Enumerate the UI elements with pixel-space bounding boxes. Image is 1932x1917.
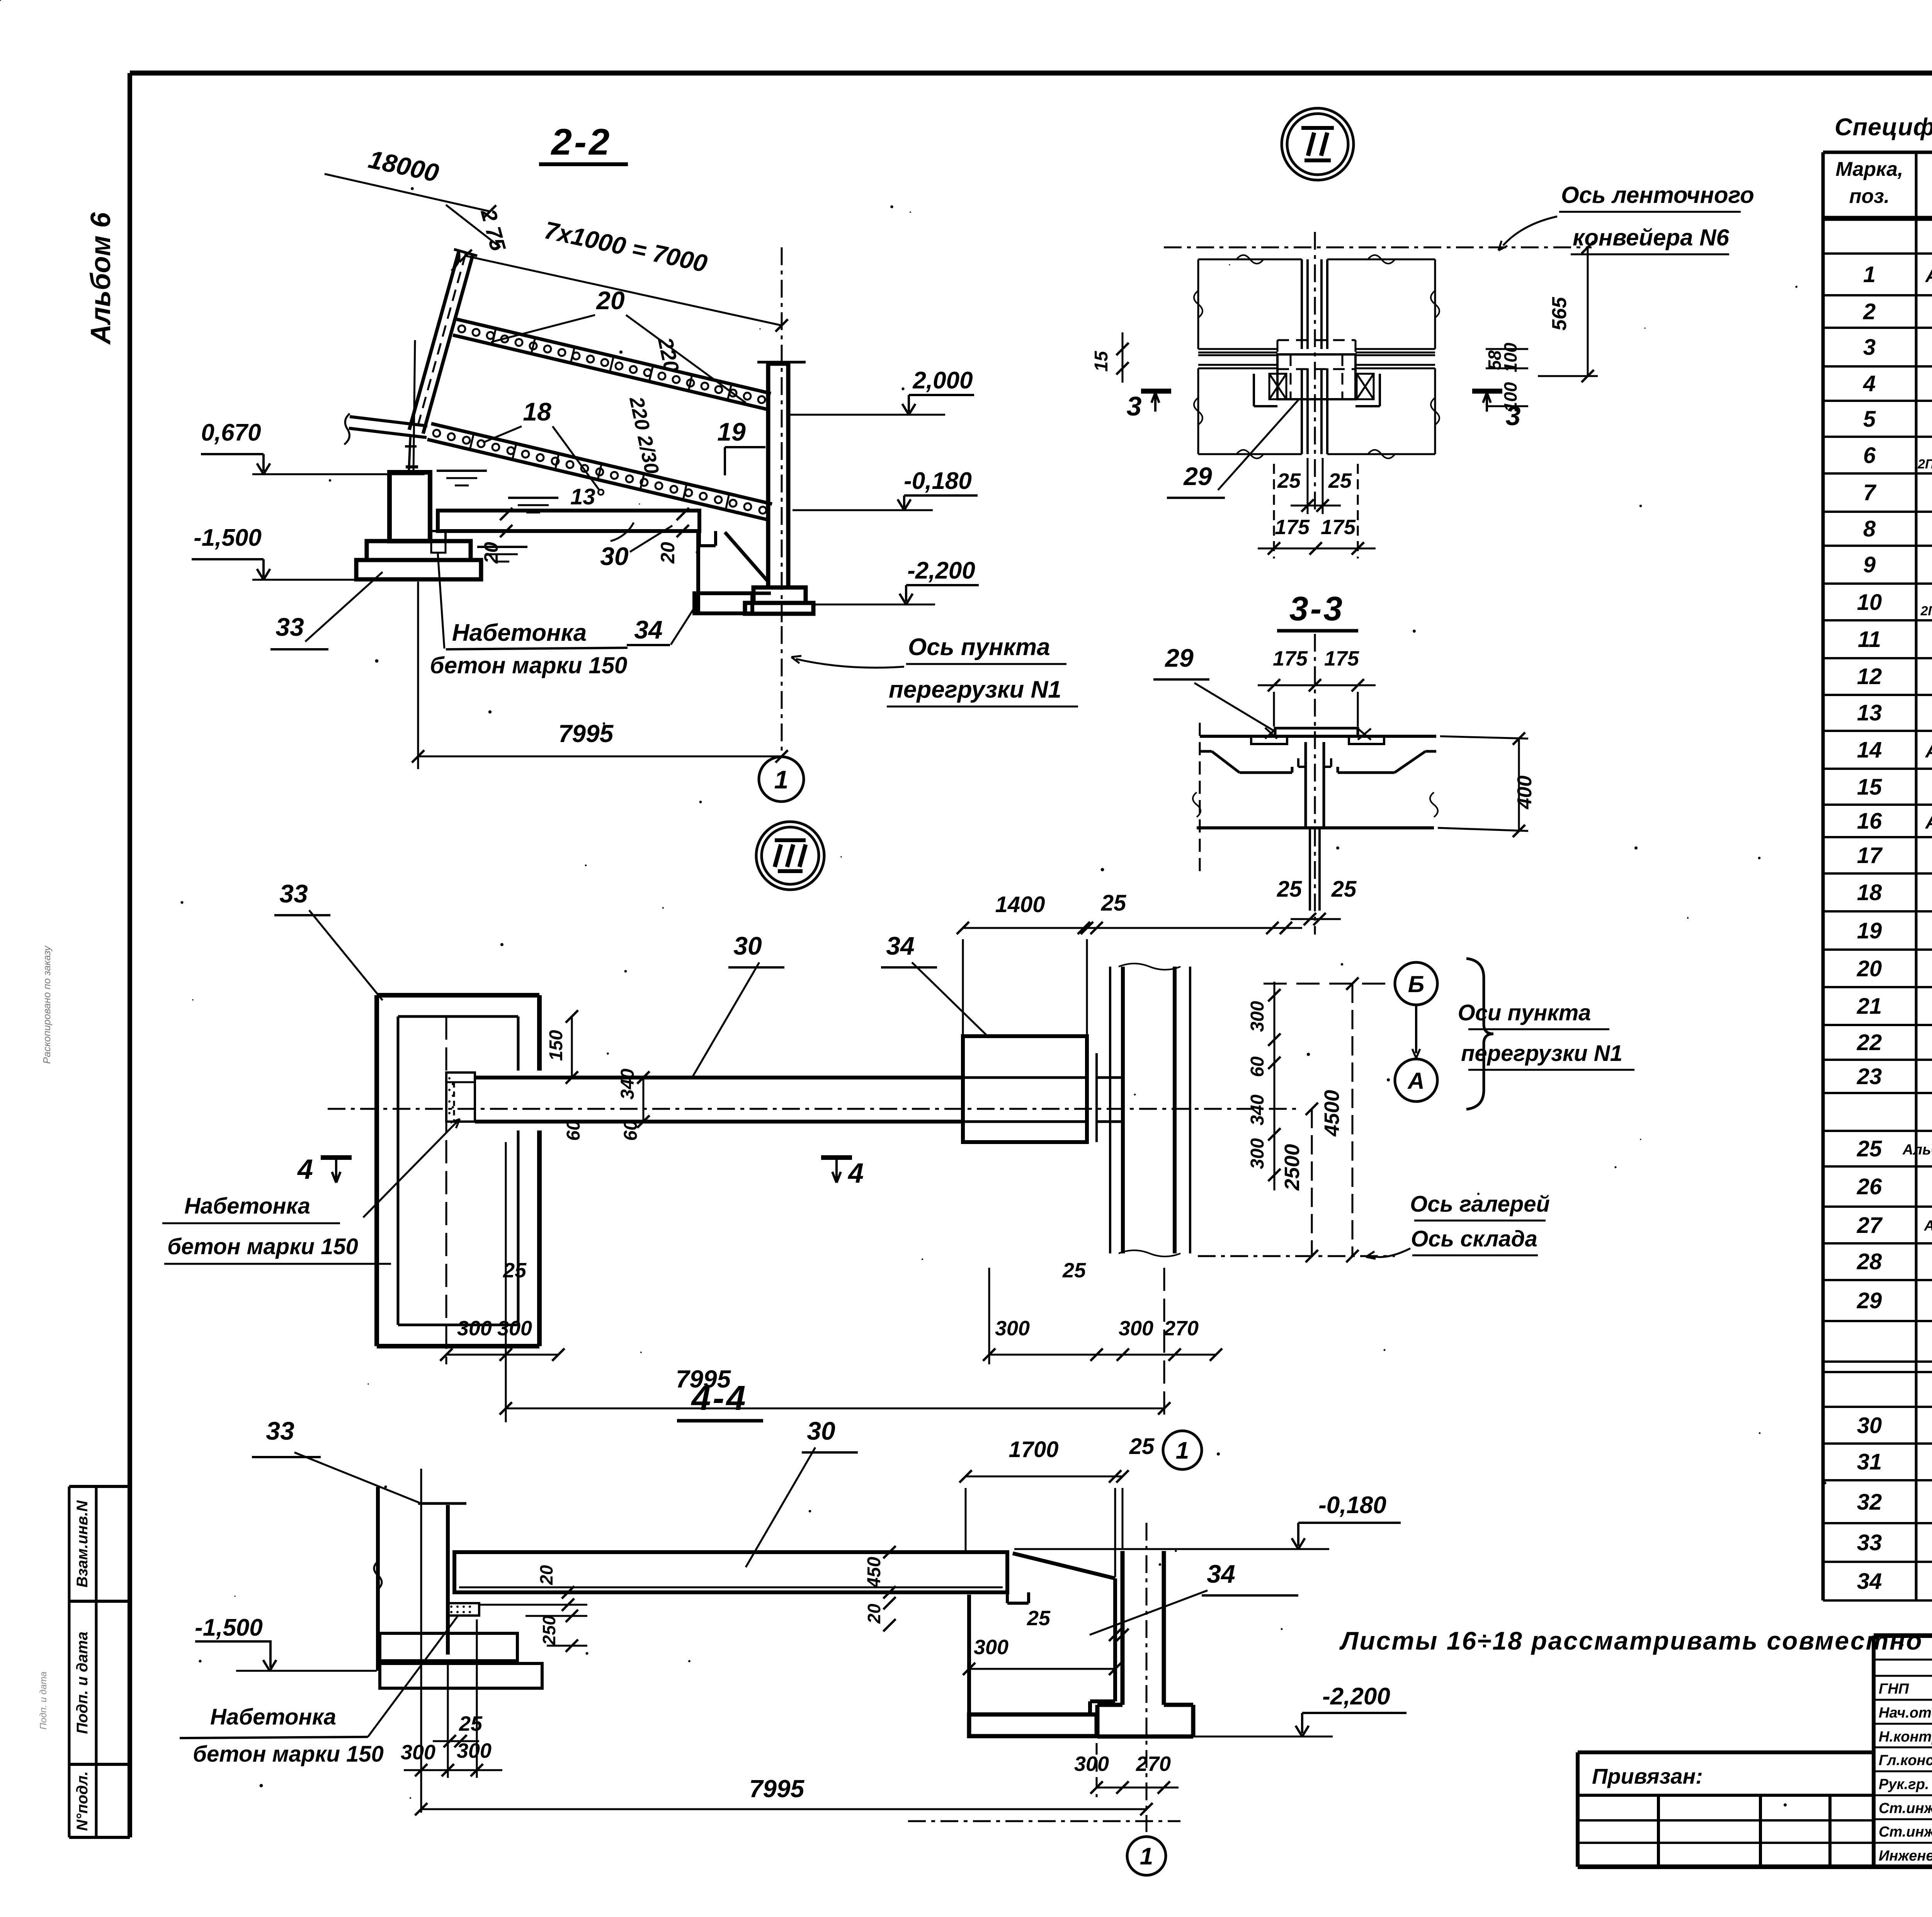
- nabetonka note (4-4): [180, 1615, 459, 1767]
- svg-text:Альбом 8, КЖИ-: Альбом 8, КЖИ-: [1925, 811, 1932, 833]
- svg-text:22: 22: [1857, 1030, 1882, 1055]
- svg-text:ГНП: ГНП: [1879, 1681, 1909, 1697]
- plate band 20 (upper): [453, 319, 771, 409]
- spec row 23: [1857, 1064, 1932, 1089]
- svg-text:300: 300: [401, 1741, 435, 1764]
- svg-text:Набетонка: Набетонка: [452, 620, 587, 646]
- svg-text:21: 21: [1857, 994, 1882, 1019]
- svg-text:300: 300: [1119, 1317, 1153, 1340]
- svg-text:60: 60: [1247, 1056, 1268, 1077]
- slab 30 (2-2): [430, 511, 716, 546]
- svg-text:Ось склада: Ось склада: [1411, 1226, 1537, 1251]
- elevation -0,180 (4-4): [1292, 1492, 1401, 1549]
- svg-text:16: 16: [1857, 809, 1882, 834]
- svg-text:20: 20: [595, 286, 625, 315]
- svg-text:33: 33: [266, 1416, 294, 1445]
- detail II geometry: [1164, 232, 1592, 514]
- svg-text:175: 175: [1324, 647, 1359, 670]
- grid circle 1 (III): [1163, 1431, 1202, 1469]
- section 2-2 title: [539, 121, 628, 164]
- staff signature table: [1874, 1636, 1932, 1867]
- elevation -1,500 (4-4): [195, 1614, 377, 1671]
- spec row 26: [1857, 1174, 1932, 1199]
- bottom dims left (III): [440, 1016, 565, 1422]
- svg-text:7х1000 = 7000: 7х1000 = 7000: [542, 216, 709, 278]
- 3-3 dims: [1153, 644, 1536, 925]
- label 30 (2-2): [600, 526, 672, 570]
- svg-text:270: 270: [1163, 1317, 1199, 1340]
- svg-text:4500: 4500: [1320, 1090, 1344, 1137]
- svg-text:-2,200: -2,200: [907, 557, 975, 584]
- spec row 25: [1857, 1136, 1932, 1161]
- svg-text:Взам.инв.N: Взам.инв.N: [74, 1500, 91, 1587]
- elevation 0,670: [201, 419, 425, 474]
- svg-text:бетон марки 150: бетон марки 150: [193, 1742, 384, 1767]
- svg-text:Подп. и дата: Подп. и дата: [74, 1632, 91, 1734]
- spec row 17: [1857, 843, 1932, 868]
- svg-text:-0,180: -0,180: [1318, 1492, 1386, 1519]
- svg-text:300: 300: [1247, 1138, 1268, 1169]
- spec row 7: [1863, 480, 1932, 505]
- left archive stamp boxes: [69, 1486, 130, 1837]
- svg-text:1: 1: [774, 765, 789, 794]
- spec row 9: [1863, 552, 1932, 577]
- elevation 2,000: [790, 367, 974, 415]
- spec row 16: [1857, 805, 1932, 835]
- label 19: [717, 417, 765, 475]
- grid bubbles Б А (III): [1264, 958, 1493, 1109]
- angle 13deg: [570, 484, 634, 541]
- svg-text:10: 10: [1857, 590, 1882, 615]
- wall lines (III): [1110, 964, 1190, 1256]
- dims 300 270 (4-4): [1074, 1743, 1179, 1797]
- svg-text:300: 300: [457, 1317, 492, 1340]
- svg-text:Марка,: Марка,: [1836, 158, 1903, 180]
- nabetonka note (III): [162, 1119, 460, 1264]
- svg-text:300: 300: [995, 1317, 1030, 1340]
- svg-text:Ст.инж.: Ст.инж.: [1879, 1800, 1932, 1817]
- svg-text:20: 20: [657, 542, 679, 564]
- svg-text:100: 100: [1500, 382, 1520, 412]
- svg-text:300: 300: [457, 1739, 492, 1762]
- svg-text:300: 300: [497, 1317, 532, 1340]
- svg-text:30: 30: [807, 1416, 835, 1445]
- svg-text:33: 33: [1857, 1530, 1882, 1555]
- svg-text:20: 20: [480, 542, 502, 564]
- svg-text:Привязан:: Привязан:: [1592, 1764, 1703, 1788]
- detail II bubble: [1282, 108, 1354, 180]
- spec row 20: [1857, 956, 1932, 981]
- svg-text:2П1-2АIVт-ф, 2П1-2АIVт-ц, 2П1-: 2П1-2АIVт-ф, 2П1-2АIVт-ц, 2П1-2АIVт-щ: [1917, 457, 1932, 472]
- svg-text:бетон марки 150: бетон марки 150: [430, 652, 628, 678]
- svg-text:29: 29: [1183, 462, 1212, 490]
- svg-text:19: 19: [717, 417, 746, 446]
- spec row 22: [1857, 1030, 1932, 1055]
- svg-text:175: 175: [1321, 516, 1356, 539]
- svg-text:Нач.отд.: Нач.отд.: [1879, 1705, 1932, 1721]
- dim 1700 25 (4-4): [959, 1434, 1155, 1577]
- spec row 2: [1863, 299, 1932, 324]
- note: sheets 16-18 jointly: [1339, 1626, 1923, 1655]
- dims 1400 / 25 (III): [957, 890, 1302, 1053]
- svg-text:Инженер: Инженер: [1879, 1848, 1932, 1864]
- svg-text:Набетонка: Набетонка: [184, 1193, 310, 1219]
- svg-text:7995: 7995: [558, 720, 614, 747]
- svg-text:60: 60: [563, 1120, 584, 1141]
- svg-text:4: 4: [297, 1154, 313, 1185]
- svg-text:1400: 1400: [995, 892, 1045, 917]
- svg-text:поз.: поз.: [1849, 185, 1890, 208]
- plan III bubble: [756, 822, 824, 890]
- svg-text:4: 4: [847, 1158, 864, 1189]
- elevation -0,180 (2-2): [793, 468, 978, 510]
- svg-text:11: 11: [1858, 627, 1881, 652]
- section 3-3 title: [1277, 589, 1358, 631]
- pad 34 (III): [963, 1036, 1123, 1142]
- spec row 10: [1857, 586, 1932, 618]
- svg-text:Ось пункта: Ось пункта: [908, 634, 1050, 661]
- svg-text:28: 28: [1857, 1249, 1882, 1274]
- svg-text:Гл.констр.: Гл.констр.: [1879, 1752, 1932, 1769]
- spec row 31: [1857, 1449, 1932, 1474]
- faint archive edge text: [38, 945, 53, 1730]
- svg-text:175: 175: [1273, 647, 1308, 670]
- svg-text:450: 450: [864, 1557, 884, 1588]
- dim 7995 (III): [500, 1268, 1170, 1422]
- elevation -2,200 (2-2): [814, 557, 979, 604]
- svg-text:Листы 16÷18 рассматривать совм: Листы 16÷18 рассматривать совместно: [1339, 1626, 1923, 1655]
- svg-text:-0,180: -0,180: [904, 468, 972, 494]
- spec row 11: [1858, 627, 1932, 652]
- svg-text:перегрузки N1: перегрузки N1: [889, 676, 1061, 703]
- svg-text:26: 26: [1857, 1174, 1882, 1199]
- svg-text:14: 14: [1857, 737, 1882, 763]
- svg-text:25: 25: [1331, 877, 1357, 902]
- dim 220 (upper, rotated): [653, 335, 684, 375]
- svg-text:34: 34: [1857, 1569, 1882, 1594]
- svg-text:2: 2: [1863, 299, 1876, 324]
- svg-text:Альбом 6: Альбом 6: [85, 212, 116, 345]
- svg-text:2П1-2АIVт-Л, 2П1-2АIVт-м, 2П1-: 2П1-2АIVт-Л, 2П1-2АIVт-м, 2П1-2АIVт-н: [1920, 604, 1932, 618]
- dim 7995 (2-2): [412, 582, 788, 769]
- svg-text:25: 25: [459, 1712, 483, 1735]
- svg-text:-1,500: -1,500: [194, 524, 262, 551]
- spec row 28: [1857, 1249, 1932, 1274]
- svg-text:25: 25: [1027, 1607, 1051, 1630]
- svg-text:25: 25: [1062, 1259, 1086, 1282]
- section 3-3 geometry: [1193, 634, 1438, 935]
- svg-text:4: 4: [1863, 371, 1876, 396]
- svg-text:32: 32: [1857, 1490, 1882, 1515]
- svg-text:29: 29: [1164, 644, 1194, 672]
- dims 25 25 wall top (III): [1078, 922, 1292, 934]
- dims 25 300 pit (4-4): [963, 1588, 1129, 1675]
- svg-text:Рук.гр.: Рук.гр.: [1879, 1776, 1929, 1793]
- dim 7995 (4-4): [415, 1775, 1153, 1815]
- dims 20 450 250 (4-4): [479, 1546, 896, 1652]
- spec row 30: [1857, 1413, 1932, 1438]
- spec row 4: [1863, 371, 1932, 396]
- svg-text:13: 13: [1857, 700, 1882, 725]
- nabetonka pad (III): [446, 1073, 475, 1122]
- svg-text:Н.контр.: Н.контр.: [1879, 1729, 1932, 1745]
- svg-text:1: 1: [1863, 262, 1876, 287]
- svg-text:33: 33: [279, 879, 308, 908]
- label 33 (4-4): [252, 1416, 419, 1503]
- оси пункта перегрузки N1 (III): [1458, 1000, 1634, 1070]
- svg-text:25: 25: [1101, 890, 1126, 916]
- specification table title: [1835, 114, 1932, 141]
- svg-text:18: 18: [1857, 880, 1882, 905]
- spec row 8: [1863, 516, 1932, 541]
- spec table header texts: [1836, 157, 1932, 215]
- svg-text:300: 300: [1074, 1752, 1109, 1776]
- svg-text:12: 12: [1857, 664, 1882, 689]
- axis пункта перегрузки: [782, 247, 1078, 756]
- svg-text:250: 250: [539, 1615, 559, 1645]
- elevation -2,200 (4-4): [1296, 1683, 1406, 1737]
- svg-text:15: 15: [1857, 775, 1882, 800]
- dim 2.75: [446, 205, 511, 254]
- dims 25 300 300 bottom-left (4-4): [401, 1619, 502, 1778]
- svg-text:31: 31: [1857, 1449, 1882, 1474]
- svg-text:Спецификация к схемам распол: Спецификация к схемам расположения конст…: [1835, 114, 1932, 141]
- slab 30 (4-4): [454, 1552, 1029, 1603]
- svg-text:Набетонка: Набетонка: [210, 1704, 336, 1730]
- svg-text:Б: Б: [1408, 971, 1424, 997]
- svg-text:34: 34: [1207, 1559, 1235, 1588]
- svg-text:конвейера N6: конвейера N6: [1573, 225, 1729, 250]
- label 33 (2-2): [270, 572, 383, 649]
- water level marks: [437, 471, 558, 562]
- svg-text:8: 8: [1863, 516, 1876, 541]
- spec row 5: [1863, 407, 1932, 432]
- pit foundation 34 (2-2): [694, 529, 771, 613]
- svg-text:Ось галерей: Ось галерей: [1410, 1192, 1550, 1217]
- spec row 14: [1857, 734, 1932, 764]
- plate band 18 (lower): [427, 424, 772, 520]
- svg-text:300: 300: [974, 1636, 1009, 1659]
- svg-text:60: 60: [621, 1120, 641, 1141]
- svg-text:25: 25: [1277, 877, 1302, 902]
- svg-text:Альбом 8, КЖИ-МС10; МС13 ; МС1: Альбом 8, КЖИ-МС10; МС13 ; МС15: [1924, 1218, 1932, 1234]
- dim 18000: [325, 145, 496, 218]
- svg-text:19: 19: [1857, 918, 1882, 943]
- spec row 29: [1857, 1288, 1932, 1313]
- svg-text:300: 300: [1247, 1001, 1268, 1032]
- svg-text:-1,500: -1,500: [195, 1614, 263, 1641]
- svg-text:Альбом 8, КЖИ-: Альбом 8, КЖИ-: [1925, 265, 1932, 286]
- svg-text:2500: 2500: [1281, 1144, 1304, 1191]
- spec row 27: [1857, 1213, 1932, 1238]
- section 4 marks (III): [297, 1154, 864, 1189]
- svg-text:Ось ленточного: Ось ленточного: [1561, 182, 1754, 208]
- plan III foundation 33: [377, 995, 539, 1346]
- spec row 34: [1857, 1569, 1932, 1594]
- label 29 (II): [1167, 400, 1298, 498]
- svg-text:220 2/30: 220 2/30: [625, 394, 663, 476]
- detail II dims: [1091, 241, 1598, 558]
- svg-text:13°: 13°: [570, 484, 605, 509]
- spec row 1: [1863, 258, 1932, 288]
- svg-text:30: 30: [600, 542, 629, 570]
- strut-pillar link: [405, 437, 418, 472]
- svg-text:3: 3: [1127, 391, 1142, 421]
- svg-text:29: 29: [1857, 1288, 1882, 1313]
- left pillar 33: [356, 340, 481, 579]
- label 34 (2-2): [627, 604, 697, 645]
- right vertical dim chain (III): [1247, 977, 1359, 1262]
- svg-text:2-2: 2-2: [551, 121, 612, 163]
- labels 33 30 34 (III): [274, 879, 383, 1000]
- svg-text:2,000: 2,000: [912, 367, 973, 394]
- spec row 3: [1863, 331, 1932, 363]
- svg-text:перегрузки N1: перегрузки N1: [1461, 1041, 1622, 1066]
- column with T-footing (4-4): [1014, 1523, 1333, 1832]
- svg-text:2 75: 2 75: [476, 206, 511, 254]
- svg-text:0,670: 0,670: [201, 419, 261, 446]
- section 4-4 title: [677, 1379, 763, 1421]
- axis label: ось ленточного конвейера N6: [1498, 182, 1754, 254]
- svg-text:Альбом 8, КЖИ-: Альбом 8, КЖИ-: [1925, 740, 1932, 762]
- left wall (4-4): [374, 1469, 466, 1813]
- svg-text:34: 34: [634, 615, 662, 644]
- svg-text:Подп. и дата: Подп. и дата: [38, 1672, 49, 1730]
- spec row 13: [1857, 700, 1932, 725]
- spec row 32: [1857, 1490, 1932, 1515]
- dim 220 2/30 (rotated): [625, 394, 663, 476]
- svg-text:Ст.инж.: Ст.инж.: [1879, 1824, 1932, 1840]
- svg-text:25: 25: [1328, 469, 1352, 492]
- svg-text:7995: 7995: [749, 1775, 805, 1803]
- column 19 with footing: [745, 362, 813, 614]
- spec row 18: [1857, 880, 1932, 905]
- elevation -1,500 (2-2): [192, 524, 389, 580]
- svg-text:20: 20: [1857, 956, 1882, 981]
- svg-text:3: 3: [1863, 335, 1876, 360]
- spec row 24 (blank): [0, 0, 0, 0]
- svg-text:3-3: 3-3: [1289, 589, 1344, 628]
- svg-text:30: 30: [1857, 1413, 1882, 1438]
- spec row 12: [1857, 664, 1932, 689]
- svg-text:1: 1: [1140, 1843, 1153, 1870]
- svg-text:5: 5: [1863, 407, 1876, 432]
- pit wall 34 (4-4): [969, 1553, 1115, 1736]
- svg-text:400: 400: [1514, 776, 1536, 810]
- svg-text:А: А: [1407, 1068, 1424, 1094]
- bottom axis + circle 1 (4-4): [908, 1821, 1180, 1875]
- spec table grid: [1823, 152, 1932, 1600]
- nabetonka pad (4-4): [447, 1603, 479, 1616]
- svg-text:17: 17: [1857, 843, 1883, 868]
- svg-text:N°подл.: N°подл.: [74, 1771, 91, 1831]
- spec row 21: [1857, 994, 1932, 1019]
- svg-text:20: 20: [536, 1565, 556, 1585]
- svg-text:18: 18: [523, 397, 551, 426]
- svg-text:30: 30: [733, 931, 762, 960]
- svg-text:-2,200: -2,200: [1322, 1683, 1390, 1710]
- svg-text:7: 7: [1863, 480, 1877, 505]
- svg-text:4-4: 4-4: [690, 1379, 747, 1418]
- left support arm: [344, 414, 427, 444]
- svg-text:Оси пункта: Оси пункта: [1458, 1000, 1591, 1025]
- beam 30 (III): [328, 1078, 1301, 1122]
- left footing steps (4-4): [380, 1633, 542, 1688]
- upper gallery strut (dashed): [409, 249, 477, 434]
- svg-text:23: 23: [1857, 1064, 1882, 1089]
- svg-text:25: 25: [1857, 1136, 1882, 1161]
- svg-text:175: 175: [1275, 516, 1310, 539]
- svg-text:Раскопировано по заказу: Раскопировано по заказу: [41, 945, 53, 1064]
- svg-text:340: 340: [617, 1069, 638, 1100]
- grid circle 1 (2-2): [759, 757, 804, 802]
- svg-text:150: 150: [546, 1030, 566, 1061]
- label 18 with leaders: [483, 397, 599, 490]
- spec row 33: [1857, 1530, 1932, 1555]
- privyazan box: [1578, 1752, 1874, 1867]
- album label: Альбом 6: [85, 212, 116, 345]
- svg-text:20: 20: [864, 1604, 884, 1624]
- svg-text:9: 9: [1863, 552, 1876, 577]
- svg-text:270: 270: [1136, 1752, 1171, 1776]
- svg-text:18000: 18000: [366, 145, 441, 187]
- ось галерей / склада (III): [1198, 1192, 1550, 1259]
- dim 7x1000=7000: [459, 216, 788, 332]
- label 20 with leaders: [491, 286, 746, 403]
- svg-text:34: 34: [886, 931, 914, 960]
- bottom dims right (III): [983, 1259, 1222, 1364]
- left vertical dims (III): [546, 1010, 650, 1141]
- spec row 19: [1857, 918, 1932, 943]
- svg-text:15: 15: [1091, 351, 1112, 372]
- nabetonka note (2-2): [430, 553, 628, 678]
- spec row 15: [1857, 775, 1932, 800]
- svg-text:340: 340: [1247, 1095, 1268, 1125]
- svg-text:565: 565: [1548, 297, 1571, 331]
- svg-text:25: 25: [1277, 469, 1301, 492]
- svg-text:1700: 1700: [1009, 1437, 1058, 1462]
- svg-text:6: 6: [1863, 443, 1876, 468]
- svg-text:27: 27: [1857, 1213, 1883, 1238]
- svg-text:бетон марки 150: бетон марки 150: [167, 1234, 358, 1259]
- svg-text:Альбом 8, КЖИ-МС11; МС12; МС16: Альбом 8, КЖИ-МС11; МС12; МС16; МС17: [1902, 1142, 1932, 1158]
- label 34 (4-4): [1090, 1559, 1298, 1635]
- svg-text:1: 1: [1176, 1437, 1189, 1464]
- title block outer frame: [1874, 1636, 1932, 1867]
- svg-text:33: 33: [276, 613, 304, 641]
- nabetonka pad (2-2): [0, 0, 446, 553]
- spec row 6: [1863, 439, 1932, 472]
- label 30 leader (4-4): [746, 1416, 858, 1567]
- svg-text:25: 25: [1129, 1434, 1155, 1459]
- dim 20 ticks (2-2): [480, 508, 512, 564]
